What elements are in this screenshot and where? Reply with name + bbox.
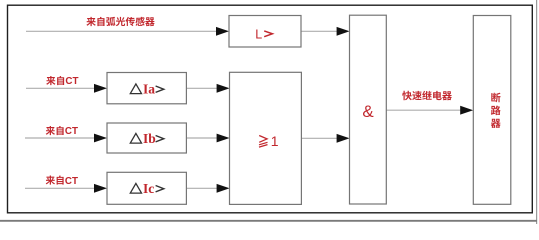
label: from CT (row c) (46, 176, 64, 185)
breaker box (473, 16, 511, 205)
arrowhead L> to AND (337, 27, 350, 36)
svg-text:CT: CT (65, 76, 78, 87)
label: circuit breaker (vertical) (491, 93, 501, 128)
svg-text:1: 1 (271, 133, 279, 149)
block delta-Ib (107, 123, 186, 153)
page rule right (536, 0, 538, 224)
wire: AND output to breaker (386, 109, 461, 111)
wire: arc sensor input to L> (26, 30, 218, 32)
wire: CT input to dIb (25, 137, 96, 139)
svg-text:CT: CT (65, 176, 78, 187)
wire: OR output to AND (301, 137, 338, 139)
arrowhead dIc to OR (217, 184, 230, 193)
svg-text:&: & (362, 102, 374, 121)
label: from arc-light sensor (86, 17, 154, 26)
arrowhead into dIb (94, 134, 107, 143)
svg-text:Ia: Ia (143, 82, 155, 97)
arrowhead dIa to OR (217, 84, 230, 93)
block delta-Ic (107, 172, 186, 204)
wire: dIa output to OR (186, 87, 218, 89)
wire: dIb output to OR (186, 137, 218, 139)
arrowhead AND to breaker (460, 106, 473, 115)
arrowhead into dIc (94, 184, 107, 193)
label: from CT (row b) (46, 126, 64, 135)
arrowhead dIb to OR (217, 134, 230, 143)
label: from CT (row a) (46, 76, 64, 85)
OR gate >=1 (230, 72, 302, 204)
wire: dIc output to OR (186, 187, 218, 189)
wire: CT input to dIa (26, 87, 96, 89)
label triangle-Ib> (130, 131, 164, 146)
svg-text:Ib: Ib (143, 131, 156, 146)
block delta-Ia (107, 73, 186, 104)
arrowhead OR to AND (337, 134, 350, 143)
label >=1 (259, 136, 268, 148)
arrowhead into L> (216, 27, 229, 36)
svg-text:Ic: Ic (143, 181, 154, 196)
wire: L> output to AND (301, 30, 339, 32)
page rule bottom (0, 220, 537, 222)
svg-text:CT: CT (65, 126, 78, 137)
svg-text:L: L (255, 27, 262, 41)
AND gate & (350, 15, 387, 204)
arrowhead into dIa (94, 84, 107, 93)
label: fast relay (402, 91, 452, 101)
label triangle-Ic> (130, 181, 164, 196)
wire: CT input to dIc (25, 187, 96, 189)
label triangle-Ia> (130, 82, 164, 97)
block L> (arc light detector) (229, 16, 301, 48)
